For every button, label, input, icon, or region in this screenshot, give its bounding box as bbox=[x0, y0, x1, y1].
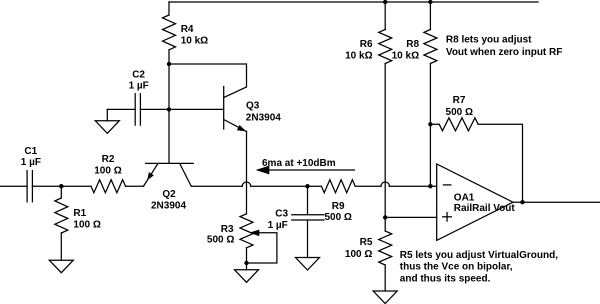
svg-text:Q2: Q2 bbox=[162, 189, 176, 200]
svg-text:1 µF: 1 µF bbox=[21, 157, 41, 168]
wire Q3 emitter vertical bbox=[246, 132, 248, 214]
wire R3 ground stem bbox=[246, 263, 248, 270]
svg-text:R8: R8 bbox=[406, 39, 419, 50]
svg-text:1 µF: 1 µF bbox=[268, 220, 288, 231]
wire R8 top lead bbox=[429, 2, 431, 30]
svg-text:R4: R4 bbox=[181, 24, 194, 35]
wire Q3 base lead bbox=[169, 108, 224, 110]
transistor Q2 bbox=[144, 163, 194, 211]
wire hop to inverting input bbox=[389, 185, 436, 187]
svg-text:500 Ω: 500 Ω bbox=[207, 235, 234, 246]
annotation R8 note bbox=[446, 35, 562, 58]
wire R7 left lead bbox=[430, 123, 439, 125]
wire hop to C3 node bbox=[251, 185, 322, 187]
ground C3 bbox=[296, 258, 320, 271]
svg-text:OA1: OA1 bbox=[454, 192, 475, 203]
node R4-Q3-base junction bbox=[167, 62, 171, 66]
node C1-R1-R2 junction bbox=[59, 184, 63, 188]
capacitor C1 bbox=[21, 146, 41, 202]
resistor R9 bbox=[321, 180, 355, 224]
svg-text:R8 lets you adjust: R8 lets you adjust bbox=[446, 35, 532, 46]
resistor R8 bbox=[392, 30, 437, 64]
wiper arrow of R3 bbox=[247, 230, 277, 264]
wire R9 to hop bbox=[355, 185, 381, 187]
resistor R3 bbox=[207, 214, 253, 248]
node output feedback junction bbox=[520, 200, 524, 204]
resistor R7 bbox=[439, 95, 478, 131]
wire noninverting input bbox=[385, 216, 437, 218]
svg-text:R5 lets you adjust VirtualGrou: R5 lets you adjust VirtualGround, bbox=[400, 250, 558, 261]
svg-text:1 µF: 1 µF bbox=[129, 80, 149, 91]
svg-text:2N3904: 2N3904 bbox=[151, 200, 186, 211]
ground R5 bbox=[373, 291, 397, 304]
svg-text:100 Ω: 100 Ω bbox=[345, 249, 372, 260]
wire node to R2 bbox=[61, 185, 91, 187]
wire R5 top lead bbox=[384, 217, 386, 231]
wire C2 right lead bbox=[140, 108, 169, 110]
svg-text:100 Ω: 100 Ω bbox=[94, 165, 121, 176]
node R3 wiper-bottom junction bbox=[244, 261, 248, 265]
wire R2 to Q2 emitter bbox=[126, 185, 144, 187]
svg-text:R2: R2 bbox=[102, 154, 115, 165]
svg-text:and thus its speed.: and thus its speed. bbox=[400, 273, 491, 284]
svg-text:Q3: Q3 bbox=[246, 101, 260, 112]
wire collector of Q3 to node bbox=[169, 64, 247, 98]
svg-text:500 Ω: 500 Ω bbox=[446, 107, 473, 118]
svg-text:10 kΩ: 10 kΩ bbox=[345, 50, 372, 61]
annotation R5 note bbox=[400, 250, 558, 284]
resistor R5 bbox=[345, 231, 392, 265]
svg-text:C2: C2 bbox=[132, 69, 145, 80]
svg-text:R6: R6 bbox=[360, 39, 373, 50]
wire C2 ground stem bbox=[106, 109, 108, 120]
node noninverting input junction bbox=[383, 215, 387, 219]
ground R1 bbox=[49, 260, 73, 273]
wire base node vertical bbox=[168, 64, 170, 163]
svg-text:10 kΩ: 10 kΩ bbox=[181, 35, 208, 46]
wire R1 top lead bbox=[60, 186, 62, 198]
annotation 6ma arrow bbox=[256, 158, 355, 175]
svg-text:RailRail Vout: RailRail Vout bbox=[454, 203, 516, 214]
transistor Q3 bbox=[224, 87, 282, 132]
svg-text:6ma at +10dBm: 6ma at +10dBm bbox=[262, 158, 336, 169]
svg-text:10 kΩ: 10 kΩ bbox=[392, 50, 419, 61]
capacitor C2 bbox=[129, 69, 149, 125]
ground C2 bbox=[95, 121, 119, 134]
wire R8 down to inverting input bbox=[429, 64, 431, 187]
wire C3 top stem bbox=[307, 186, 309, 215]
wire C2 left lead bbox=[107, 108, 135, 110]
wire R4 top lead bbox=[168, 2, 170, 15]
wire output bbox=[513, 201, 600, 203]
svg-text:C1: C1 bbox=[24, 146, 37, 157]
node C3 junction bbox=[305, 184, 309, 188]
wire R6 top lead bbox=[384, 2, 386, 30]
svg-text:R5: R5 bbox=[360, 237, 373, 248]
resistor R6 bbox=[345, 30, 392, 64]
wire Vcc top rail bbox=[169, 1, 538, 3]
wire R7 to output bbox=[478, 124, 522, 202]
svg-text:100 Ω: 100 Ω bbox=[73, 220, 100, 231]
svg-text:C3: C3 bbox=[275, 209, 288, 220]
svg-text:R1: R1 bbox=[73, 208, 86, 219]
wire hop over Q3 emitter line bbox=[242, 182, 250, 186]
svg-text:R9: R9 bbox=[332, 201, 345, 212]
wire R1 bottom lead bbox=[60, 233, 62, 260]
op-amp OA1 bbox=[437, 164, 516, 240]
node R6 top rail junction bbox=[383, 0, 387, 4]
ground R3 bbox=[235, 270, 259, 283]
wire R4 bottom lead bbox=[168, 50, 170, 64]
wire input left bbox=[0, 185, 27, 187]
svg-text:2N3904: 2N3904 bbox=[246, 112, 281, 123]
node R8 top rail junction bbox=[428, 0, 432, 4]
wire R3 bottom lead bbox=[246, 248, 248, 263]
wire C1 to node bbox=[32, 185, 61, 187]
wire Q2 collector to hop bbox=[191, 185, 242, 187]
resistor R4 bbox=[163, 15, 209, 50]
wire hop over R6-R5 line bbox=[381, 182, 389, 186]
wire R5 bottom lead bbox=[384, 265, 386, 291]
svg-text:thus the Vce on bipolar,: thus the Vce on bipolar, bbox=[400, 262, 513, 273]
svg-text:Vout when zero input RF: Vout when zero input RF bbox=[446, 47, 562, 58]
wire C3 ground stem bbox=[307, 220, 309, 258]
capacitor C3 bbox=[268, 209, 324, 231]
node R7 tap junction bbox=[428, 122, 432, 126]
svg-text:R3: R3 bbox=[221, 224, 234, 235]
node C2-base junction bbox=[167, 107, 171, 111]
resistor R2 bbox=[91, 154, 126, 193]
svg-text:R7: R7 bbox=[453, 95, 466, 106]
resistor R1 bbox=[55, 198, 101, 233]
wire R6 to noninverting node bbox=[384, 64, 386, 218]
svg-text:500 Ω: 500 Ω bbox=[324, 212, 351, 223]
node R8 line joins inverting input bbox=[428, 184, 432, 188]
